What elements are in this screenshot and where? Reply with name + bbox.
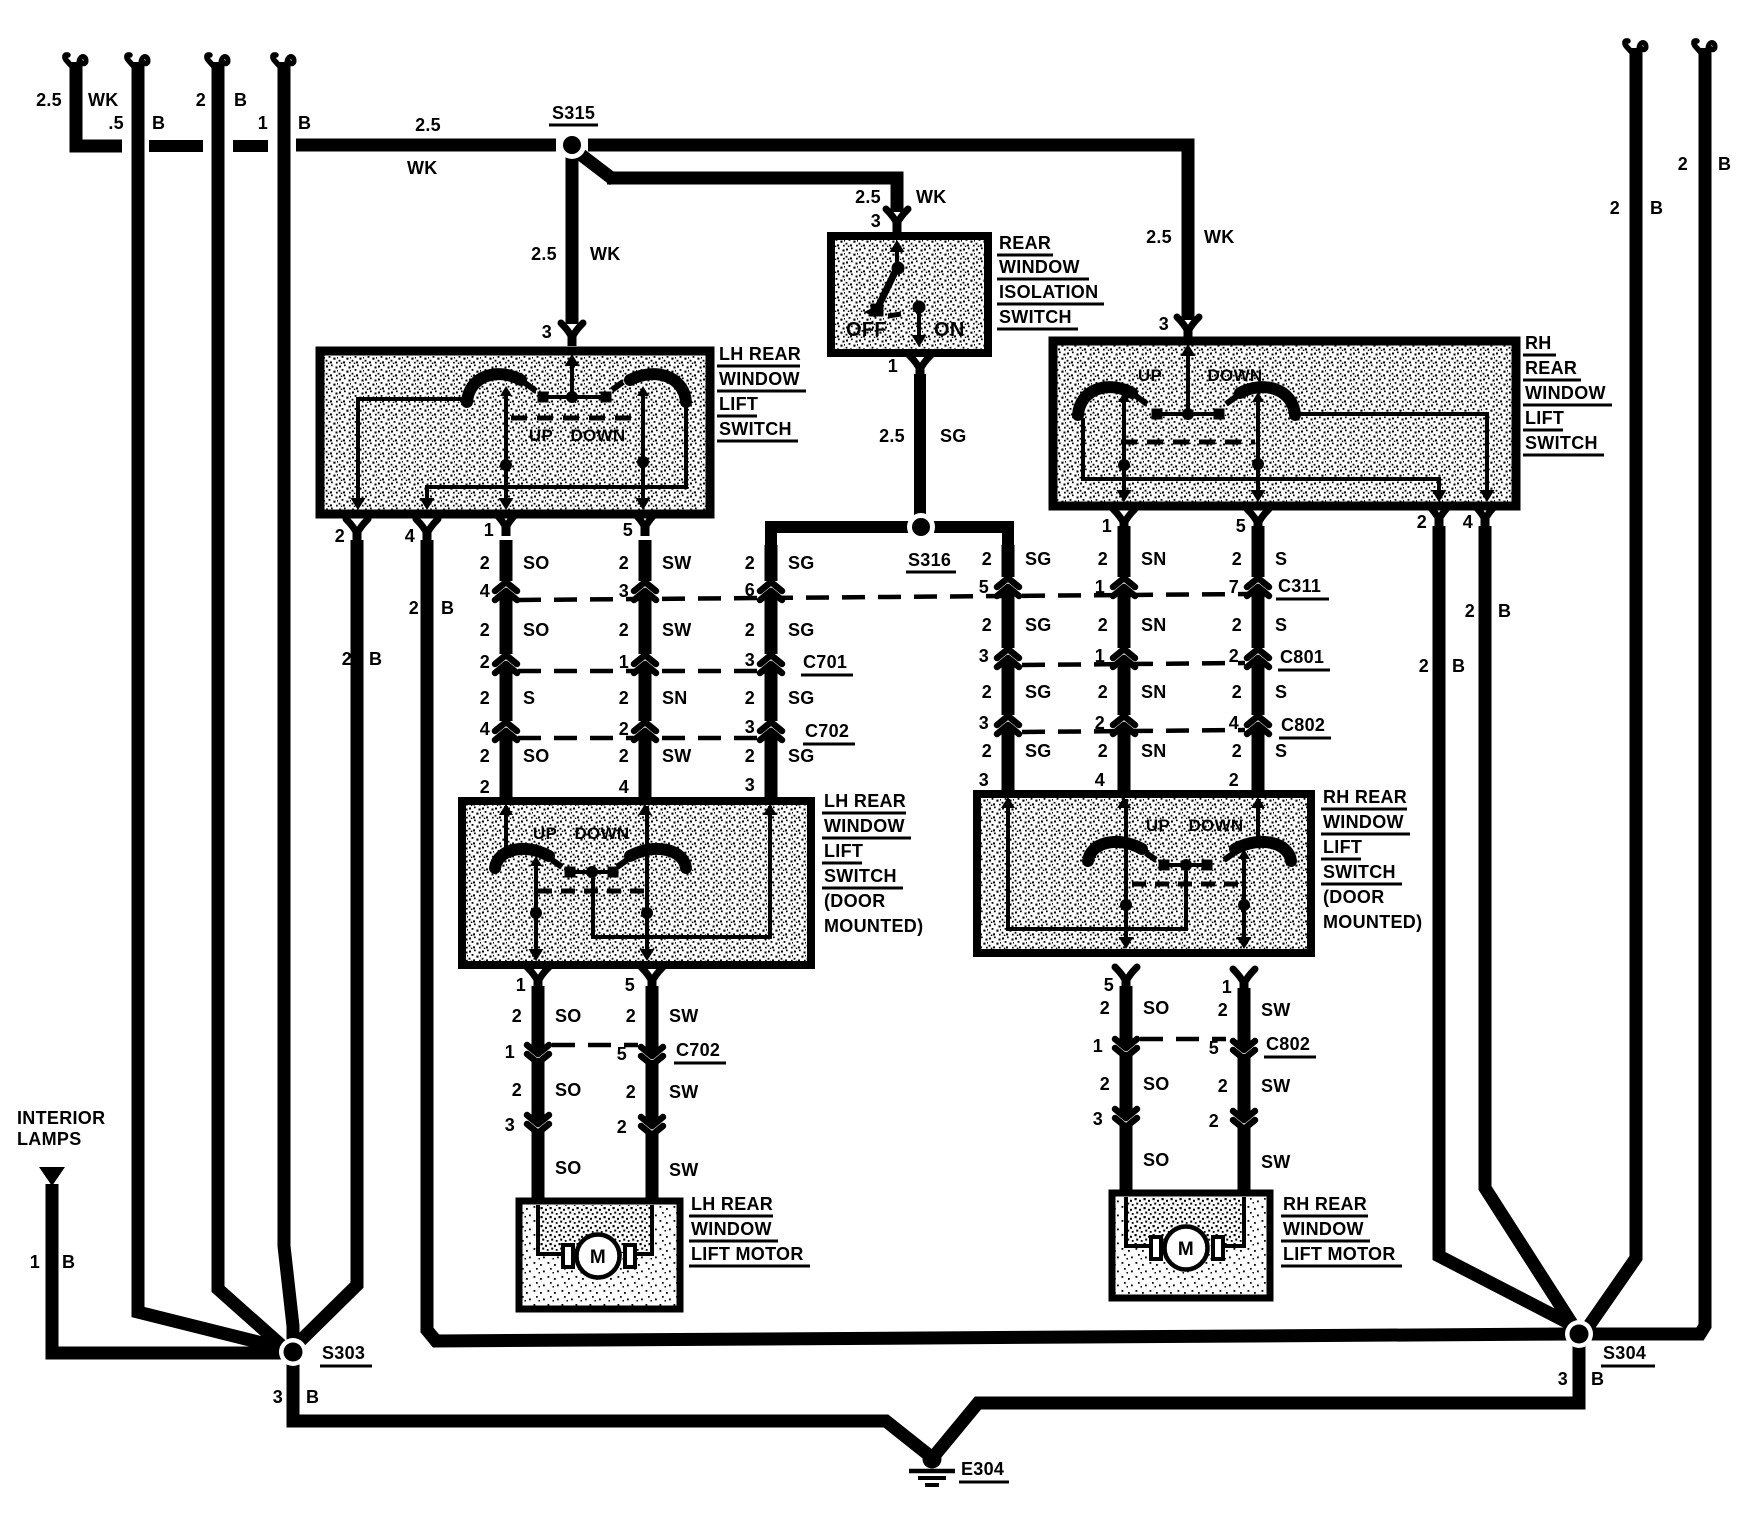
- svg-text:WK: WK: [916, 187, 947, 207]
- labels column E wire codes: [1095, 549, 1167, 790]
- svg-text:SG: SG: [788, 746, 815, 766]
- svg-text:LH REAR: LH REAR: [719, 344, 801, 364]
- svg-text:2.5: 2.5: [855, 187, 881, 207]
- label S303: [320, 1343, 372, 1366]
- wire ladder column C (SG from S316): [764, 545, 778, 814]
- LH lift switch pivot: [538, 391, 612, 403]
- LH door switch pin5 internal: [640, 806, 655, 961]
- labels RH motor SO column: [1093, 998, 1170, 1170]
- svg-text:S: S: [1275, 741, 1287, 761]
- connector C702 halves col x=645: [634, 722, 656, 740]
- svg-text:S: S: [523, 688, 535, 708]
- label LH REAR WINDOW LIFT SWITCH (DOOR MOUNTED): [822, 791, 923, 936]
- svg-text:SW: SW: [669, 1006, 699, 1026]
- svg-text:2.5: 2.5: [1146, 227, 1172, 247]
- labels LH motor SO column: [505, 1006, 582, 1178]
- svg-text:2: 2: [1417, 512, 1427, 532]
- connector C802 halves col x=1124: [1113, 716, 1135, 734]
- svg-text:S303: S303: [322, 1343, 365, 1363]
- motor box LH rear window lift motor: [519, 1201, 680, 1309]
- svg-text:RH REAR: RH REAR: [1323, 787, 1407, 807]
- isolation switch pin 3 arrow and stem: [890, 240, 905, 262]
- svg-text:SW: SW: [1261, 1076, 1291, 1096]
- LH door switch arc dashes: [552, 860, 627, 867]
- svg-text:7: 7: [1229, 577, 1239, 597]
- svg-text:WINDOW: WINDOW: [1283, 1219, 1364, 1239]
- svg-text:UP: UP: [529, 426, 553, 445]
- wire RH pin2 to S304: [1419, 526, 1584, 1331]
- svg-text:4: 4: [480, 581, 490, 601]
- ground E304: [909, 1450, 1009, 1486]
- svg-text:1: 1: [619, 652, 629, 672]
- svg-text:2: 2: [619, 746, 629, 766]
- connector C802 halves col x=1258: [1247, 716, 1269, 734]
- svg-text:C702: C702: [805, 721, 849, 741]
- svg-text:5: 5: [979, 577, 989, 597]
- connector halves motor SW row2: [641, 1117, 663, 1135]
- svg-text:SN: SN: [1141, 741, 1167, 761]
- svg-text:WINDOW: WINDOW: [691, 1219, 772, 1239]
- svg-text:2: 2: [745, 688, 755, 708]
- svg-text:SO: SO: [1143, 1074, 1170, 1094]
- wire 2.5 SG isolation to S316: [879, 374, 967, 515]
- svg-text:SWITCH: SWITCH: [1525, 433, 1598, 453]
- connector C311 halves col x=1008: [997, 578, 1019, 596]
- wire S315 branch to isolation switch: [580, 154, 947, 231]
- svg-text:3: 3: [745, 717, 755, 737]
- svg-text:B: B: [441, 598, 454, 618]
- wire S315 branch down to LH lift switch: [531, 157, 621, 342]
- svg-text:LAMPS: LAMPS: [17, 1129, 82, 1149]
- svg-text:2: 2: [626, 1082, 636, 1102]
- connector C311 halves col x=1258: [1247, 578, 1269, 596]
- svg-text:LIFT: LIFT: [824, 841, 863, 861]
- label C702: [803, 721, 855, 744]
- label RH REAR WINDOW LIFT MOTOR: [1281, 1194, 1402, 1266]
- svg-text:2: 2: [1232, 615, 1242, 635]
- LH door switch pin3 internal: [593, 806, 770, 937]
- svg-text:B: B: [1498, 601, 1511, 621]
- svg-text:2: 2: [1098, 615, 1108, 635]
- LH lift switch arc-pivot dashes: [525, 382, 623, 391]
- svg-text:REAR: REAR: [1525, 358, 1577, 378]
- svg-text:C801: C801: [1280, 647, 1324, 667]
- svg-text:C702: C702: [676, 1040, 720, 1060]
- svg-text:2: 2: [1218, 1000, 1228, 1020]
- RH lift switch arc-pivot dashes: [1136, 396, 1237, 404]
- svg-text:2: 2: [480, 620, 490, 640]
- isolation switch OFF-ON link dash: [888, 314, 901, 316]
- wire interior lamps 1 B to S303: [30, 1184, 284, 1353]
- svg-text:SN: SN: [1141, 615, 1167, 635]
- wire RH pin5 to ladder col F: [1252, 526, 1265, 540]
- LH door switch top pin arrows: [499, 804, 777, 815]
- wire ladder column E (SN from RH pin1): [1117, 536, 1131, 807]
- svg-text:2.5: 2.5: [415, 115, 441, 135]
- labels RH motor SW column: [1209, 1000, 1291, 1172]
- wire W2 feed .5 B with connector hook: [108, 55, 290, 1350]
- wire ladder column B (SW from LH pin5): [638, 540, 652, 814]
- svg-text:2: 2: [619, 688, 629, 708]
- pin 2 fork LH lift switch: [335, 519, 368, 546]
- svg-text:SN: SN: [662, 688, 688, 708]
- RH door switch top pin arrows: [1001, 797, 1265, 808]
- motor M2 RH circle: [1165, 1227, 1208, 1270]
- svg-text:2: 2: [480, 688, 490, 708]
- LH lift switch pin2 internal wire: [351, 399, 465, 510]
- connector C311 halves col x=1124: [1113, 578, 1135, 596]
- svg-text:2.5: 2.5: [879, 426, 905, 446]
- svg-text:SW: SW: [669, 1160, 699, 1180]
- connector C802 dashed line: [1022, 730, 1245, 732]
- svg-text:WINDOW: WINDOW: [999, 257, 1080, 277]
- svg-text:2: 2: [480, 746, 490, 766]
- svg-text:LIFT MOTOR: LIFT MOTOR: [1283, 1244, 1396, 1264]
- svg-text:3: 3: [979, 646, 989, 666]
- svg-text:2: 2: [480, 652, 490, 672]
- motor M1 LH circle: [577, 1235, 620, 1278]
- wire LH motor SW column: [646, 986, 659, 1205]
- svg-text:5: 5: [1209, 1038, 1219, 1058]
- svg-text:2: 2: [982, 615, 992, 635]
- svg-text:4: 4: [1229, 713, 1239, 733]
- svg-text:S315: S315: [552, 103, 595, 123]
- svg-text:2.5: 2.5: [36, 90, 62, 110]
- RH lift switch pivot: [1152, 408, 1225, 420]
- wire W4 feed 1 B with connector hook: [258, 55, 312, 1352]
- svg-text:1: 1: [258, 113, 268, 133]
- connector C802 halves col x=1008: [997, 716, 1019, 734]
- label REAR WINDOW ISOLATION SWITCH: [997, 233, 1104, 329]
- LH lift switch right rocker contact arc: [630, 374, 686, 402]
- svg-text:2: 2: [745, 553, 755, 573]
- svg-text:WK: WK: [88, 90, 119, 110]
- svg-text:B: B: [234, 90, 247, 110]
- wire RH pin4 to S304: [1465, 526, 1576, 1330]
- wire RH motor SW column: [1238, 988, 1251, 1197]
- labels column C wire codes: [745, 553, 815, 795]
- svg-text:B: B: [62, 1252, 75, 1272]
- wire S303 to E304 ground run: [273, 1362, 930, 1456]
- svg-text:RH REAR: RH REAR: [1283, 1194, 1367, 1214]
- svg-text:WINDOW: WINDOW: [1525, 383, 1606, 403]
- wire ladder column D (SG from S316): [1001, 545, 1015, 807]
- isolation switch pivot contact: [892, 262, 905, 275]
- connector C311 halves col x=506: [495, 582, 517, 600]
- RH door switch pin5 internal: [1119, 799, 1134, 949]
- svg-text:1: 1: [30, 1252, 40, 1272]
- svg-text:LH REAR: LH REAR: [824, 791, 906, 811]
- RH door switch pin2 stub: [1256, 799, 1260, 845]
- label OFF: [846, 319, 887, 341]
- svg-text:3: 3: [505, 1115, 515, 1135]
- svg-text:4: 4: [480, 719, 490, 739]
- svg-text:1: 1: [1102, 516, 1112, 536]
- svg-text:1: 1: [1095, 646, 1105, 666]
- svg-text:RH: RH: [1525, 333, 1552, 353]
- svg-text:2: 2: [1229, 770, 1239, 790]
- svg-text:2: 2: [982, 682, 992, 702]
- svg-text:2: 2: [1465, 601, 1475, 621]
- svg-text:2: 2: [1232, 682, 1242, 702]
- RH motor internal wires: [1126, 1197, 1244, 1246]
- svg-text:2: 2: [1209, 1111, 1219, 1131]
- LH motor brushes: [563, 1245, 635, 1267]
- connector C801 halves col x=1008: [997, 649, 1019, 667]
- svg-text:2: 2: [196, 90, 206, 110]
- svg-text:2: 2: [1098, 549, 1108, 569]
- svg-text:(DOOR: (DOOR: [824, 891, 886, 911]
- LH door switch right rocker arc: [630, 849, 686, 868]
- svg-text:UP: UP: [1146, 816, 1170, 835]
- pin 5 fork RH door switch: [1104, 967, 1137, 995]
- switch box RH rear window lift switch: [1053, 341, 1516, 506]
- svg-text:3: 3: [1093, 1109, 1103, 1129]
- svg-text:2: 2: [619, 719, 629, 739]
- label S316: [906, 550, 956, 572]
- svg-text:E304: E304: [961, 1459, 1004, 1479]
- svg-text:DOWN: DOWN: [574, 824, 629, 843]
- connector C802 dashed line motor: [1140, 1037, 1226, 1042]
- svg-text:3: 3: [542, 322, 552, 342]
- label C802: [1279, 715, 1331, 738]
- interior lamps feed arrow: [39, 1167, 65, 1186]
- wire 2.5 WK main run to S315 and RH switch: [296, 115, 1235, 320]
- svg-text:.5: .5: [108, 113, 124, 133]
- label C801: [1278, 647, 1330, 670]
- RH door switch right rocker arc: [1235, 842, 1291, 861]
- svg-text:2: 2: [617, 1117, 627, 1137]
- svg-text:LIFT: LIFT: [1525, 408, 1564, 428]
- connector halves RH motor SO row2: [1115, 1109, 1137, 1127]
- wire W5 feed 2 B with connector hook: [1586, 41, 1663, 1330]
- svg-text:SO: SO: [555, 1158, 582, 1178]
- RH motor brushes: [1151, 1237, 1223, 1259]
- svg-text:SN: SN: [1141, 682, 1167, 702]
- LH door switch pin2 stub: [504, 806, 508, 852]
- svg-text:1: 1: [505, 1042, 515, 1062]
- svg-text:2: 2: [1678, 154, 1688, 174]
- svg-text:SO: SO: [523, 746, 550, 766]
- wire LH pin2 to S303: [292, 540, 382, 1349]
- RH motor inner dark region: [1126, 1197, 1244, 1245]
- isolation switch ON contact: [912, 301, 927, 348]
- svg-text:3: 3: [745, 775, 755, 795]
- svg-text:WINDOW: WINDOW: [1323, 812, 1404, 832]
- LH motor internal wires: [538, 1205, 652, 1254]
- svg-text:2: 2: [1232, 549, 1242, 569]
- LH lift switch left rocker contact arc: [467, 374, 521, 402]
- svg-text:SW: SW: [662, 746, 692, 766]
- connector C701 dashed line: [518, 669, 757, 674]
- LH door switch pivot: [565, 866, 619, 878]
- svg-text:2: 2: [409, 598, 419, 618]
- label LH REAR WINDOW LIFT MOTOR: [689, 1194, 810, 1266]
- svg-text:1: 1: [484, 520, 494, 540]
- svg-text:SO: SO: [555, 1080, 582, 1100]
- label INTERIOR LAMPS: [17, 1108, 105, 1149]
- svg-text:SO: SO: [1143, 998, 1170, 1018]
- RH door switch pivot: [1159, 859, 1213, 871]
- svg-text:2: 2: [335, 526, 345, 546]
- svg-text:C311: C311: [1278, 576, 1321, 596]
- RH door switch left rocker arc: [1088, 842, 1142, 861]
- svg-text:1: 1: [888, 356, 898, 376]
- connector C701 halves col x=645: [634, 655, 656, 673]
- pin 2 fork RH lift switch: [1417, 505, 1450, 532]
- wire W3 feed 2 B with connector hook: [196, 55, 290, 1353]
- RH lift switch pin2 internal wire: [1083, 418, 1447, 502]
- svg-text:ISOLATION: ISOLATION: [999, 282, 1098, 302]
- svg-text:2: 2: [1229, 646, 1239, 666]
- svg-text:ON: ON: [934, 319, 965, 341]
- svg-text:UP: UP: [533, 824, 557, 843]
- label S304: [1601, 1343, 1655, 1366]
- RH lift switch pin4 internal wire: [1298, 412, 1495, 502]
- label C701: [801, 652, 853, 675]
- RH lift switch left rocker contact arc: [1078, 387, 1132, 415]
- connector C801 halves col x=1124: [1113, 649, 1135, 667]
- svg-text:2: 2: [1419, 656, 1429, 676]
- label C702 motor: [674, 1040, 726, 1063]
- svg-text:SWITCH: SWITCH: [1323, 862, 1396, 882]
- svg-text:WINDOW: WINDOW: [719, 369, 800, 389]
- LH motor inner dark region: [538, 1205, 652, 1253]
- wire LH motor SO column: [532, 986, 545, 1205]
- labels column D wire codes: [979, 549, 1052, 790]
- svg-text:5: 5: [625, 975, 635, 995]
- switch box LH rear window lift switch: [320, 351, 710, 514]
- svg-text:SG: SG: [1025, 615, 1052, 635]
- svg-text:SO: SO: [523, 553, 550, 573]
- LH door switch left rocker arc: [495, 849, 549, 868]
- svg-text:4: 4: [1095, 770, 1105, 790]
- svg-text:WINDOW: WINDOW: [824, 816, 905, 836]
- svg-text:OFF: OFF: [846, 319, 887, 341]
- svg-text:SO: SO: [523, 620, 550, 640]
- connector C802 halves motor SW: [1233, 1041, 1255, 1059]
- svg-text:LH REAR: LH REAR: [691, 1194, 773, 1214]
- svg-text:SW: SW: [662, 620, 692, 640]
- labels column A wire codes: [480, 553, 550, 797]
- svg-text:SW: SW: [1261, 1152, 1291, 1172]
- svg-text:S304: S304: [1603, 1343, 1646, 1363]
- svg-text:SWITCH: SWITCH: [999, 307, 1072, 327]
- svg-text:M: M: [1178, 1239, 1194, 1260]
- svg-text:3: 3: [273, 1387, 283, 1407]
- RH lift switch pin5 internal wire: [1251, 392, 1266, 502]
- connector C702 dashed line: [518, 736, 757, 741]
- label C311: [1276, 576, 1329, 599]
- wire S316 to right ladder: [929, 527, 1008, 558]
- svg-text:SN: SN: [1141, 549, 1167, 569]
- svg-text:LIFT MOTOR: LIFT MOTOR: [691, 1244, 804, 1264]
- connector C702 halves motor SW: [641, 1047, 663, 1065]
- connector C702 halves col x=506: [495, 722, 517, 740]
- svg-text:2: 2: [745, 620, 755, 640]
- svg-text:2: 2: [745, 746, 755, 766]
- svg-text:2: 2: [982, 741, 992, 761]
- svg-text:4: 4: [405, 526, 415, 546]
- svg-text:SG: SG: [788, 553, 815, 573]
- svg-text:SG: SG: [940, 426, 967, 446]
- pin 1 fork LH door switch: [516, 967, 549, 995]
- svg-text:B: B: [298, 113, 311, 133]
- svg-text:DOWN: DOWN: [1207, 366, 1262, 385]
- connector C802 halves motor SO: [1115, 1039, 1137, 1057]
- RH door switch pin1 internal: [1237, 849, 1252, 949]
- svg-text:2: 2: [512, 1080, 522, 1100]
- connector C701 halves col x=771: [760, 655, 782, 673]
- svg-text:SG: SG: [1025, 549, 1052, 569]
- label RH REAR WINDOW LIFT SWITCH (DOOR MOUNTED): [1321, 787, 1422, 932]
- LH lift switch pin1 internal wire: [499, 386, 514, 510]
- svg-text:5: 5: [1104, 975, 1114, 995]
- svg-text:SW: SW: [662, 553, 692, 573]
- LH lift switch pin 3 arrow stem: [565, 354, 580, 392]
- svg-text:WK: WK: [407, 158, 438, 178]
- LH lift switch pin5 internal wire: [636, 386, 651, 510]
- svg-text:2: 2: [1098, 741, 1108, 761]
- pin 3 fork LH lift switch: [561, 323, 583, 346]
- svg-text:SG: SG: [1025, 741, 1052, 761]
- label S315: [549, 103, 598, 125]
- svg-text:S: S: [1275, 682, 1287, 702]
- svg-text:B: B: [1452, 656, 1465, 676]
- svg-text:SO: SO: [555, 1006, 582, 1026]
- svg-text:SWITCH: SWITCH: [824, 866, 897, 886]
- label UP DOWN LH lift switch: [529, 426, 626, 445]
- svg-text:2: 2: [1100, 1074, 1110, 1094]
- wire ladder column A (SO from LH pin1): [499, 540, 513, 814]
- svg-text:2: 2: [512, 1006, 522, 1026]
- pin 1 fork RH door switch: [1222, 969, 1255, 997]
- svg-text:M: M: [590, 1247, 606, 1268]
- svg-text:B: B: [1650, 198, 1663, 218]
- connector C311 halves col x=645: [634, 582, 656, 600]
- pin 1 fork isolation switch output: [888, 355, 931, 378]
- wire S304 to E304 ground run: [935, 1344, 1604, 1455]
- node S304 splice: [1565, 1320, 1593, 1348]
- svg-text:C802: C802: [1266, 1034, 1310, 1054]
- svg-text:SWITCH: SWITCH: [719, 419, 792, 439]
- svg-text:B: B: [369, 649, 382, 669]
- label UP DOWN LH door switch: [533, 824, 630, 843]
- motor box RH rear window lift motor: [1112, 1193, 1270, 1298]
- svg-text:2: 2: [480, 777, 490, 797]
- svg-text:3: 3: [1159, 314, 1169, 334]
- svg-text:3: 3: [871, 211, 881, 231]
- svg-text:S316: S316: [908, 550, 951, 570]
- node S303 splice: [279, 1338, 307, 1366]
- wire RH motor SO column: [1120, 986, 1133, 1197]
- svg-text:UP: UP: [1138, 366, 1162, 385]
- svg-text:DOWN: DOWN: [570, 426, 625, 445]
- labels LH motor SW column: [617, 1006, 699, 1180]
- svg-text:5: 5: [617, 1044, 627, 1064]
- pin 4 fork LH lift switch: [405, 519, 438, 546]
- RH door switch link dashed: [1132, 882, 1242, 887]
- RH door switch arc dashes: [1146, 853, 1234, 860]
- connector halves RH motor SW row2: [1233, 1111, 1255, 1129]
- pin 3 fork RH lift switch: [1159, 314, 1199, 340]
- svg-text:2: 2: [982, 549, 992, 569]
- svg-text:SO: SO: [1143, 1150, 1170, 1170]
- svg-text:2: 2: [342, 649, 352, 669]
- pin 5 fork LH lift switch: [623, 513, 656, 540]
- connector C702 halves motor SO: [527, 1045, 549, 1063]
- pin 1 fork RH lift switch: [1102, 509, 1135, 536]
